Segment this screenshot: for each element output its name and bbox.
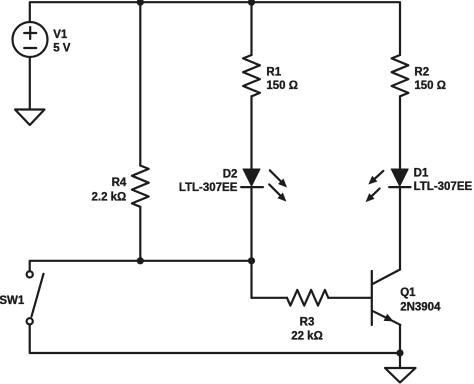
svg-text:2N3904: 2N3904 [400, 302, 441, 314]
svg-text:150 Ω: 150 Ω [266, 80, 298, 92]
wire: to ground bottom right [399, 353, 401, 368]
switch SW1 [27, 271, 44, 324]
wire: V1 bottom to ground [29, 57, 31, 110]
svg-text:2.2 kΩ: 2.2 kΩ [91, 191, 126, 203]
svg-text:22 kΩ: 22 kΩ [291, 331, 323, 343]
label R2 150 [414, 66, 446, 92]
voltage source V1 [13, 22, 48, 57]
arrows: D1 light emission [366, 171, 384, 202]
wire: R1 branch top stub [250, 2, 252, 55]
svg-text:R3: R3 [300, 316, 315, 328]
svg-text:LTL-307EE: LTL-307EE [414, 181, 473, 193]
wire: R1 bottom to D2 [250, 96, 252, 169]
resistor R1 [243, 55, 260, 96]
resistor R4 [132, 166, 149, 207]
wire: R4 branch top stub [139, 2, 141, 165]
node: junction bottom right [396, 349, 403, 356]
label R3 22k [291, 316, 323, 342]
svg-text:V1: V1 [53, 29, 68, 41]
ground: below V1 [15, 110, 45, 126]
resistor R2 [392, 55, 409, 96]
label D1 LTL-307EE [414, 168, 473, 193]
wire: R3 to Q1 base [328, 297, 371, 299]
svg-text:LTL-307EE: LTL-307EE [179, 182, 238, 194]
resistor R3 [287, 290, 328, 306]
node: junction top at R1 branch [248, 0, 255, 6]
LED D2 [241, 169, 263, 187]
label Q1 2N3904 [400, 287, 441, 314]
transistor Q1 [372, 270, 401, 326]
label V1 5V [53, 29, 71, 54]
svg-text:D2: D2 [223, 168, 238, 180]
node: junction mid at R4 [137, 257, 144, 264]
wire: top rail from V1 to R2 branch [30, 2, 400, 55]
svg-text:R1: R1 [266, 66, 281, 78]
node: junction mid at D2 branch [248, 257, 255, 264]
svg-text:D1: D1 [414, 168, 429, 180]
svg-text:5 V: 5 V [53, 42, 71, 54]
label R4 2.2k [91, 177, 126, 203]
LED D1 [389, 169, 410, 187]
arrows: D2 light emission [269, 170, 287, 201]
label R1 150 [266, 66, 298, 92]
svg-text:150 Ω: 150 Ω [414, 80, 446, 92]
svg-text:R2: R2 [414, 66, 429, 78]
wire: switch bottom to bottom rail [30, 325, 400, 353]
wire: R4 bottom to mid rail [139, 207, 141, 261]
wire: mid rail switch row [30, 261, 252, 271]
wire: R3 left stub [252, 297, 288, 299]
wire: D1 to Q1 collector [399, 187, 401, 270]
svg-text:SW1: SW1 [0, 295, 25, 307]
label D2 LTL-307EE [179, 168, 238, 194]
ground: bottom right [385, 368, 416, 383]
node: junction top at R4 branch [137, 0, 144, 6]
wire: R2 bottom to D1 [399, 96, 401, 169]
svg-text:R4: R4 [112, 177, 127, 189]
svg-text:Q1: Q1 [400, 287, 416, 299]
wire: Q1 emitter to bottom rail [399, 325, 401, 353]
wire: D2 to mid rail and down to R3 [250, 187, 252, 298]
